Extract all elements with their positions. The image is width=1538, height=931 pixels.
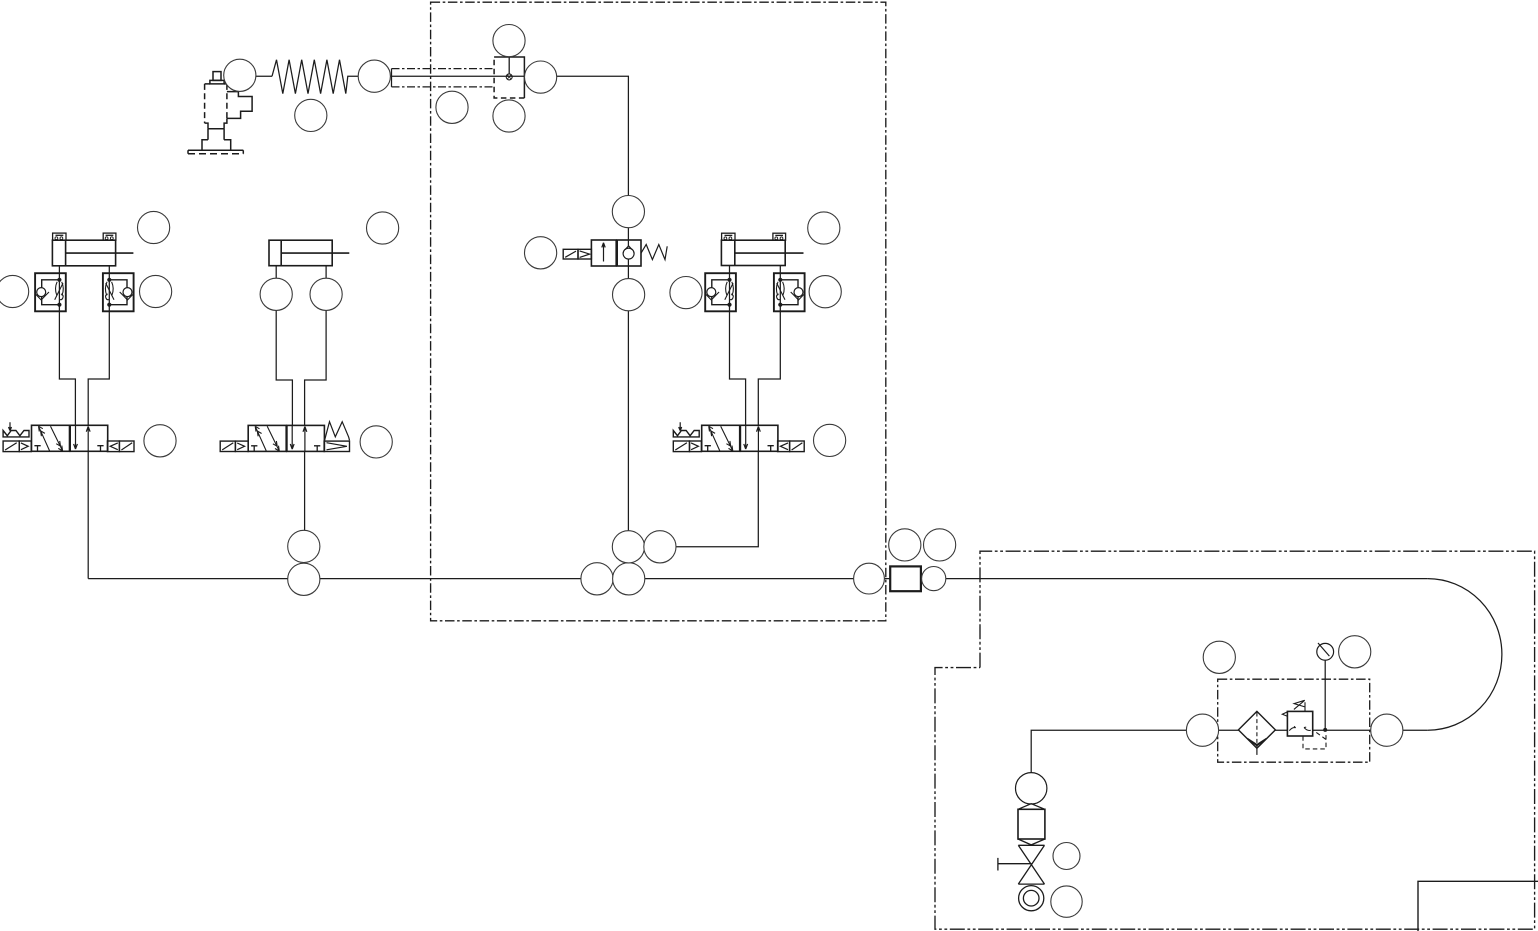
FRL enclosure (dash-dot) (1218, 679, 1370, 762)
pressure gauge (1317, 643, 1334, 660)
spring (detection spring) (272, 60, 358, 94)
balloon: sensor top (493, 24, 525, 56)
sensor switches on CYL1 (53, 233, 116, 240)
title block corner (1418, 881, 1538, 931)
balloon: source (1051, 886, 1082, 917)
flow control FC3a (705, 273, 736, 311)
flow control FC1b (103, 273, 134, 311)
valve V1 (5/2 double pilot) (3, 422, 134, 451)
wire: CYL1 ports to valve V1 (59, 266, 109, 426)
valve V3 (5/2 double pilot) (673, 422, 804, 451)
balloon: CYL2 port a (260, 278, 292, 310)
balloon: bus junction b (613, 563, 645, 595)
cylinder CYL2 (269, 240, 349, 266)
arc: supply hose loop (1428, 579, 1502, 731)
balloon: CYL1 top (138, 211, 170, 243)
balloon: coupling top b (924, 529, 956, 561)
wire: valve V3 supply drop to junction (660, 451, 758, 547)
balloon: FRL outlet (1371, 714, 1403, 746)
balloon: 3/2 valve left (525, 237, 557, 269)
junction dot (1323, 728, 1327, 732)
balloon: bus junction a (581, 563, 613, 595)
valve V4 (3/2 solenoid with check) (563, 240, 667, 266)
balloon: V1 (144, 425, 176, 457)
balloon: V2 (360, 426, 392, 458)
wire: CYL3 ports to valve V3 (730, 266, 781, 426)
balloon: CYL3 top (808, 212, 840, 244)
balloon: CYL2 top (367, 212, 399, 244)
valve V2 (5/2 spring return) (220, 422, 349, 452)
machine fixture (phantom part) (188, 72, 252, 154)
balloon: sensor right (525, 61, 557, 93)
balloon: FRL right top (1339, 636, 1371, 668)
sensor switches on CYL3 (722, 233, 786, 240)
flow control FC3b (774, 273, 805, 311)
balloon: FRL left top (1203, 641, 1235, 673)
balloon: 3/2 valve top (612, 196, 644, 228)
wire: FRL output line (1031, 730, 1428, 772)
cylinder CYL3 (721, 240, 803, 265)
flow control FC1a (35, 273, 66, 311)
sensor head (proximity, in box) (494, 57, 524, 98)
balloon: branch upper b (644, 531, 676, 563)
balloon: coupling top a (889, 529, 921, 561)
balloon: 3/2 valve bottom (613, 279, 645, 311)
balloon: CYL2 port b (310, 278, 342, 310)
wire: pilot line from sensor to 3/2 valve (391, 76, 629, 240)
enclosure box 1 (machine frame, dash-dot) (431, 2, 886, 621)
filter F1 (1238, 711, 1275, 755)
phantom rod (dash-dot rectangle) (392, 69, 495, 87)
wire: valve V1 supply drop (87, 451, 89, 578)
regulator R1 (1282, 700, 1326, 749)
balloon: FC3a / valve lower right (670, 277, 702, 309)
balloon: rod end (358, 60, 390, 92)
wire: gauge riser (1324, 660, 1326, 730)
cylinder CYL1 (52, 240, 133, 266)
wire: 3/2 valve line down to bus (627, 266, 629, 579)
balloon: V3 (814, 424, 846, 456)
wire: CYL2 ports to valve V2 (276, 266, 326, 426)
balloon: FRL inlet (1186, 714, 1218, 746)
balloon: FC3b (809, 276, 841, 308)
balloon: coupling left (854, 563, 885, 594)
balloon: V2 supply upper (288, 530, 320, 562)
enclosure box 2 (supply unit frame, dash-dot-dot) (935, 551, 1535, 929)
balloon: sensor left low (436, 91, 468, 123)
balloon: machine (224, 59, 256, 91)
balloon: FC1b (140, 275, 172, 307)
balloon: hand valve (1053, 843, 1080, 870)
hand valve (shut-off) chain (998, 773, 1047, 911)
balloon: coupling right (922, 567, 946, 591)
balloon: branch upper a (612, 531, 644, 563)
wire: machine link line (256, 75, 272, 77)
balloon: sensor bottom (493, 100, 525, 132)
balloon: V2 supply lower (288, 563, 320, 595)
wire: valve V2 supply drop (304, 451, 306, 578)
balloon: FC1a (0, 275, 29, 307)
balloon: spring (295, 99, 327, 131)
wire: main supply bus (88, 578, 1428, 580)
coupling (quick connector) (890, 566, 921, 591)
